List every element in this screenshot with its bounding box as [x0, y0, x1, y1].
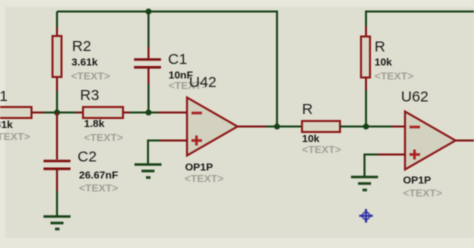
svg-text:<TEXT>: <TEXT> [185, 173, 224, 185]
capacitor C1 [134, 60, 161, 68]
op-amp U42 [187, 98, 238, 156]
svg-text:U62: U62 [401, 89, 429, 106]
svg-text:OP1P: OP1P [403, 175, 431, 187]
resistor R (10k) pin left [289, 126, 302, 128]
resistor R3 pin left [76, 112, 83, 114]
wire R2 to node A [56, 91, 58, 113]
wire node B to U42 minus [149, 112, 159, 114]
ground under C2 [44, 217, 71, 230]
capacitor C1 pin top [148, 47, 150, 59]
wire C2 to ground [56, 191, 58, 216]
svg-text:<TEXT>: <TEXT> [71, 71, 110, 83]
capacitor C1 wire from top net [148, 12, 150, 48]
op-amp U62 pin minus [392, 126, 405, 128]
capacitor C1 pin bottom [148, 69, 150, 85]
svg-text:R3: R3 [80, 87, 99, 104]
wire R21 to node A [44, 112, 76, 114]
origin marker [359, 209, 373, 223]
node C junction [274, 124, 280, 130]
resistor R21 pin right [32, 112, 45, 114]
svg-text:R21: R21 [0, 88, 8, 105]
capacitor C2 pin bottom [56, 170, 58, 191]
op-amp U62 [405, 112, 456, 170]
resistor R pin right [340, 126, 353, 128]
svg-text:1.8k: 1.8k [84, 118, 105, 130]
op-amp U42 pin output [238, 126, 267, 128]
svg-text:U42: U42 [189, 74, 217, 91]
svg-text:<TEXT>: <TEXT> [84, 132, 123, 144]
svg-text:6.81k: 6.81k [0, 119, 13, 131]
svg-text:OP1P: OP1P [185, 162, 213, 174]
resistor R21 (clipped at left edge) [0, 107, 32, 118]
op-amp U42 pin plus [160, 140, 187, 142]
resistor R2 [53, 36, 62, 77]
wire R3 to node B [130, 112, 149, 114]
wire U62 plus to ground [365, 155, 379, 177]
node junction C1 top [146, 9, 152, 15]
op-amp U62 plus symbol [410, 150, 421, 160]
node A junction [54, 110, 60, 116]
resistor R (10k vertical) [361, 37, 370, 78]
svg-text:<TEXT>: <TEXT> [375, 71, 414, 83]
wire R vertical to node D [365, 90, 367, 127]
ground at U62 plus input [351, 177, 378, 190]
wire U42 plus to ground [148, 141, 160, 164]
svg-text:C2: C2 [78, 149, 97, 166]
op-amp U42 minus symbol [192, 112, 203, 115]
svg-text:26.67nF: 26.67nF [79, 170, 119, 182]
svg-text:R: R [375, 39, 386, 56]
resistor R pin bottom [365, 78, 367, 91]
resistor R (vertical) pin top [365, 26, 367, 37]
wire R2 top [56, 12, 58, 28]
ground at U42 plus input [135, 165, 162, 178]
svg-text:<TEXT>: <TEXT> [0, 131, 30, 143]
op-amp U62 pin output [456, 140, 474, 142]
svg-text:10k: 10k [375, 57, 393, 69]
wire top feedback net U42 [57, 12, 277, 127]
wire R to node D [353, 126, 392, 128]
resistor R (10k horizontal) [302, 121, 340, 132]
resistor R2 pin top [56, 27, 58, 36]
capacitor C2 [44, 161, 71, 169]
svg-text:<TEXT>: <TEXT> [302, 144, 341, 156]
svg-text:R: R [302, 101, 313, 118]
resistor R3 [83, 107, 123, 118]
svg-text:<TEXT>: <TEXT> [79, 183, 118, 195]
wire C1 to node B [148, 84, 150, 113]
wire U42 output to node C [266, 126, 289, 128]
svg-text:C1: C1 [168, 51, 187, 68]
op-amp U42 plus symbol [192, 136, 203, 146]
node B junction [146, 110, 152, 116]
svg-text:R2: R2 [72, 38, 91, 55]
svg-text:3.61k: 3.61k [72, 56, 98, 68]
op-amp U42 pin minus [158, 112, 187, 114]
svg-text:<TEXT>: <TEXT> [403, 188, 442, 200]
resistor R3 pin right [123, 112, 130, 114]
capacitor C2 pin top from node A [56, 113, 58, 160]
op-amp U62 pin plus [378, 154, 405, 156]
wire top feedback net U62 [366, 12, 474, 27]
node D junction [363, 124, 369, 130]
op-amp U62 minus symbol [410, 126, 421, 129]
resistor R2 pin bottom [56, 77, 58, 91]
